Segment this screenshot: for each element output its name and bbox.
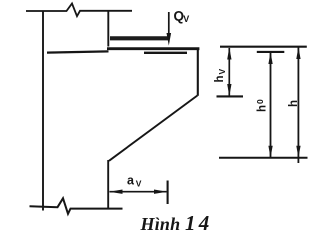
label hv (rotated) [214, 69, 227, 83]
svg-text:V: V [183, 14, 189, 24]
label h (rotated) [288, 100, 300, 107]
svg-text:14: 14 [185, 211, 212, 235]
wire: column left edge [42, 11, 44, 211]
dimension h0 top tick [257, 51, 285, 53]
bearing plate on corbel top [110, 36, 168, 40]
dimension av right tick [167, 181, 169, 205]
wire: top column cut line with break symbol [26, 4, 132, 17]
wire: right figure top reference line [220, 46, 307, 48]
dimension h line with arrows [297, 48, 299, 164]
svg-text:a: a [127, 174, 135, 188]
wire: corbel top edge (right part) [107, 47, 199, 50]
wire: right figure bottom reference line with end hook [219, 157, 308, 159]
svg-text:h: h [288, 100, 300, 107]
wire: corbel right edge [197, 48, 199, 96]
load arrow Qv [168, 12, 170, 34]
label h0 (rotated) [255, 99, 269, 112]
wire: corbel lower vertical edge [107, 160, 109, 208]
svg-text:V: V [136, 179, 142, 189]
svg-text:h: h [257, 105, 269, 112]
wire: corbel top edge (left part) [47, 51, 109, 52]
wire: column right edge above corbel [107, 11, 109, 47]
dimension hv line with arrows [228, 48, 230, 96]
svg-text:V: V [217, 69, 227, 75]
wire: corbel inclined bottom face [109, 96, 197, 161]
svg-text:Hình: Hình [140, 214, 181, 234]
dimension h0 line with arrows [270, 53, 272, 158]
dimension av line with arrows [110, 191, 167, 193]
svg-text:h: h [214, 75, 226, 82]
svg-text:0: 0 [255, 99, 265, 104]
wire: corbel top edge doubling [144, 52, 187, 54]
wire: bottom column cut line with break symbol [30, 198, 123, 214]
dimension hv bottom tick [217, 95, 244, 97]
